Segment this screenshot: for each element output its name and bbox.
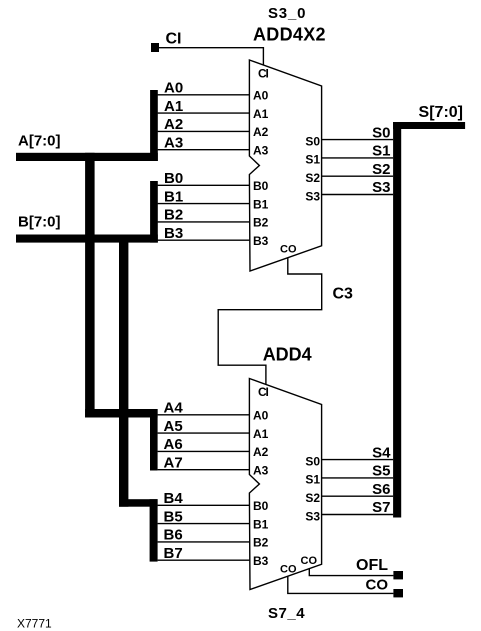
svg-text:B0: B0 bbox=[164, 170, 183, 187]
svg-text:B5: B5 bbox=[164, 508, 183, 525]
svg-text:B1: B1 bbox=[253, 197, 269, 211]
svg-text:B2: B2 bbox=[253, 216, 269, 230]
svg-text:CO: CO bbox=[280, 563, 297, 575]
svg-text:S3: S3 bbox=[372, 179, 390, 196]
svg-text:A5: A5 bbox=[164, 418, 183, 435]
svg-text:S0: S0 bbox=[305, 134, 320, 148]
svg-text:S7_4: S7_4 bbox=[268, 605, 305, 622]
svg-text:B2: B2 bbox=[164, 207, 183, 224]
svg-text:B[7:0]: B[7:0] bbox=[18, 213, 61, 230]
svg-text:A0: A0 bbox=[253, 409, 269, 423]
svg-text:B6: B6 bbox=[164, 527, 183, 544]
svg-text:S2: S2 bbox=[372, 161, 390, 178]
svg-text:A3: A3 bbox=[253, 143, 269, 157]
svg-text:X7771: X7771 bbox=[17, 616, 52, 630]
svg-text:OFL: OFL bbox=[356, 557, 388, 574]
svg-text:A1: A1 bbox=[164, 98, 183, 115]
svg-text:S3: S3 bbox=[305, 509, 320, 523]
svg-text:S1: S1 bbox=[372, 143, 390, 160]
svg-text:CI: CI bbox=[166, 31, 182, 48]
svg-text:B7: B7 bbox=[164, 545, 183, 562]
svg-text:A0: A0 bbox=[164, 80, 183, 97]
svg-text:S6: S6 bbox=[372, 481, 390, 498]
svg-text:CI: CI bbox=[258, 66, 268, 80]
svg-text:B3: B3 bbox=[164, 225, 183, 242]
svg-text:A4: A4 bbox=[164, 400, 184, 417]
svg-text:C3: C3 bbox=[333, 286, 354, 303]
svg-text:ADD4: ADD4 bbox=[263, 344, 312, 364]
svg-text:B3: B3 bbox=[253, 554, 269, 568]
svg-text:S5: S5 bbox=[372, 463, 390, 480]
svg-text:A6: A6 bbox=[164, 436, 183, 453]
svg-text:CO: CO bbox=[366, 577, 389, 594]
svg-text:S1: S1 bbox=[305, 153, 320, 167]
svg-text:S2: S2 bbox=[305, 171, 320, 185]
svg-text:S4: S4 bbox=[372, 444, 391, 461]
svg-text:B3: B3 bbox=[253, 234, 269, 248]
svg-text:S3: S3 bbox=[305, 189, 320, 203]
svg-text:CO: CO bbox=[280, 243, 297, 255]
svg-text:B0: B0 bbox=[253, 179, 269, 193]
svg-text:S0: S0 bbox=[372, 124, 390, 141]
svg-text:A[7:0]: A[7:0] bbox=[18, 133, 61, 150]
svg-text:B1: B1 bbox=[253, 517, 269, 531]
svg-text:A3: A3 bbox=[253, 463, 269, 477]
svg-text:S1: S1 bbox=[305, 473, 320, 487]
svg-text:S7: S7 bbox=[372, 499, 390, 516]
svg-text:ADD4X2: ADD4X2 bbox=[253, 24, 326, 44]
svg-text:B2: B2 bbox=[253, 536, 269, 550]
svg-text:S3_0: S3_0 bbox=[268, 5, 306, 22]
svg-text:S[7:0]: S[7:0] bbox=[419, 104, 463, 121]
svg-text:A2: A2 bbox=[253, 445, 269, 459]
svg-text:B0: B0 bbox=[253, 499, 269, 513]
svg-text:A2: A2 bbox=[253, 125, 269, 139]
svg-text:B1: B1 bbox=[164, 188, 183, 205]
svg-text:A7: A7 bbox=[164, 454, 183, 471]
svg-text:A0: A0 bbox=[253, 89, 269, 103]
svg-text:A1: A1 bbox=[253, 427, 269, 441]
svg-text:CO: CO bbox=[301, 555, 318, 567]
svg-text:A2: A2 bbox=[164, 116, 183, 133]
svg-text:B4: B4 bbox=[164, 490, 184, 507]
svg-text:S0: S0 bbox=[305, 454, 320, 468]
svg-text:S2: S2 bbox=[305, 491, 320, 505]
svg-text:A1: A1 bbox=[253, 107, 269, 121]
svg-text:A3: A3 bbox=[164, 134, 183, 151]
svg-text:CI: CI bbox=[258, 385, 268, 399]
